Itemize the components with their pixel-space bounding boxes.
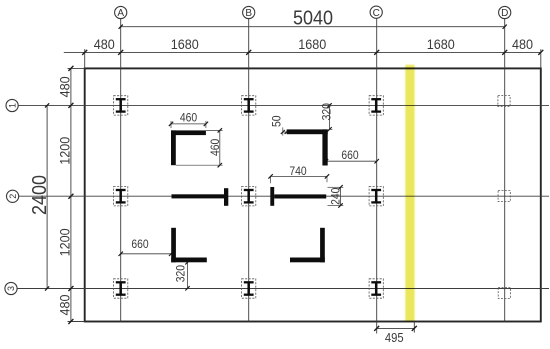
axis bubble C <box>370 6 382 19</box>
dimension text 320 bottom <box>175 265 188 282</box>
dimension line left chain <box>68 66 85 324</box>
svg-text:1200: 1200 <box>57 137 73 165</box>
dimension line 740 <box>268 174 329 183</box>
column C3 with I-section <box>369 279 383 298</box>
svg-text:480: 480 <box>57 295 73 316</box>
slab outline <box>85 68 541 321</box>
dimension text 660 right <box>341 149 358 162</box>
column C2 with I-section <box>369 187 383 206</box>
svg-text:1200: 1200 <box>57 228 73 256</box>
svg-text:480: 480 <box>94 36 115 52</box>
axis line 3 horizontal <box>17 288 549 290</box>
axis bubble 3 <box>5 282 17 294</box>
svg-text:1680: 1680 <box>427 36 455 52</box>
column B1 with I-section <box>242 96 256 115</box>
dimension text 460 vertical <box>210 139 223 156</box>
column B2 with I-section <box>242 187 256 206</box>
dimension line top chain <box>64 49 544 68</box>
axis bubble B <box>243 6 255 19</box>
axis line 1 horizontal <box>18 104 549 106</box>
svg-text:A: A <box>117 8 124 19</box>
dimension line 240 <box>328 185 344 208</box>
axis line A vertical <box>120 19 122 322</box>
column D2 dashed <box>498 191 510 202</box>
svg-text:5040: 5040 <box>293 7 333 29</box>
svg-text:2: 2 <box>8 194 18 199</box>
column A3 with I-section <box>114 279 128 298</box>
wall L-shape top-left <box>171 130 206 165</box>
dimension line 320 bottom <box>185 260 189 290</box>
svg-text:50: 50 <box>271 116 284 128</box>
dimension line 460 vertical <box>176 128 223 167</box>
dimension text 495 <box>385 330 404 345</box>
wall T-bar middle-right <box>270 187 326 206</box>
svg-text:460: 460 <box>210 139 223 156</box>
dimension text 50 <box>271 116 284 128</box>
wall T-bar middle-left <box>172 188 229 206</box>
axis line C vertical <box>376 18 378 333</box>
axis line 2 horizontal <box>19 195 549 197</box>
svg-text:3: 3 <box>6 286 16 291</box>
dimension text 1200 lower <box>57 228 73 256</box>
column C1 with I-section <box>369 96 383 115</box>
column A1 with I-section <box>114 96 128 115</box>
dimension text 480 top-right <box>512 36 533 52</box>
dimension text 460 horizontal <box>180 112 197 125</box>
axis bubble 1 <box>6 99 18 111</box>
svg-text:1: 1 <box>7 103 17 108</box>
svg-text:D: D <box>501 8 508 19</box>
wall L-shape bottom-right <box>290 228 325 262</box>
svg-text:460: 460 <box>180 112 197 125</box>
svg-text:495: 495 <box>385 330 404 345</box>
wall L-shape bottom-left <box>171 228 207 262</box>
dimension text 320 top <box>321 103 334 120</box>
dimension line 460 horizontal <box>169 121 208 128</box>
dimension line 2400 <box>45 103 49 290</box>
dimension text 5040 <box>293 7 333 29</box>
axis bubble 2 <box>7 190 19 202</box>
dimension text 240 <box>330 188 343 205</box>
dimension text 660 left <box>131 239 148 252</box>
dimension text 1680 third <box>427 36 455 52</box>
svg-text:240: 240 <box>330 188 343 205</box>
svg-text:660: 660 <box>131 239 148 252</box>
svg-text:320: 320 <box>175 265 188 282</box>
dimension text 480 top-left <box>94 36 115 52</box>
svg-text:480: 480 <box>512 36 533 52</box>
dimension text 1680 second <box>298 36 326 52</box>
svg-text:1680: 1680 <box>298 36 326 52</box>
svg-text:740: 740 <box>289 165 306 178</box>
svg-text:B: B <box>245 8 252 19</box>
dimension line 50 <box>281 127 289 135</box>
wall L-shape top-right <box>287 129 328 165</box>
dimension text 740 <box>289 165 306 178</box>
column D1 dashed <box>498 96 510 107</box>
svg-text:480: 480 <box>57 76 73 97</box>
dimension line 660 left <box>119 252 174 256</box>
dimension line 320 top <box>327 103 332 131</box>
dimension text 1200 upper <box>57 137 73 165</box>
dimension text 1680 first <box>171 36 199 52</box>
yellow highlight band <box>405 65 414 322</box>
column B3 with I-section <box>242 279 256 298</box>
axis bubble D <box>499 6 511 19</box>
dimension text 480 left-bottom <box>57 295 73 316</box>
dimension text 2400 <box>29 175 51 215</box>
axis bubble A <box>115 6 127 19</box>
svg-text:1680: 1680 <box>171 36 199 52</box>
column D3 dashed <box>498 288 510 299</box>
dimension text 480 left-top <box>57 76 73 97</box>
axis line B vertical <box>248 19 250 322</box>
svg-text:2400: 2400 <box>29 175 51 215</box>
dimension line 660 right <box>324 159 379 163</box>
svg-text:320: 320 <box>321 103 334 120</box>
dimension line 5040 <box>119 25 507 29</box>
column A2 with I-section <box>114 187 128 206</box>
svg-text:660: 660 <box>341 149 358 162</box>
axis line D vertical <box>504 19 506 322</box>
svg-text:C: C <box>373 8 380 19</box>
dimension line 495 <box>374 322 417 333</box>
